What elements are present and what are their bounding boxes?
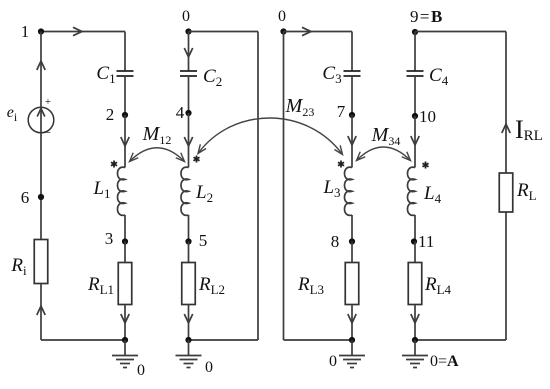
dot-convention star L4 bbox=[422, 162, 428, 169]
capacitor C3 bbox=[344, 71, 361, 76]
label RL4 bbox=[424, 274, 452, 297]
wire RL3 to ground junction bbox=[351, 305, 353, 341]
dot-convention star L1 bbox=[111, 161, 117, 168]
wire right side loop2 bbox=[257, 32, 259, 341]
current arrow down into L1 bbox=[121, 137, 129, 146]
node 8 bbox=[331, 232, 355, 251]
wire node8 to RL3 bbox=[351, 242, 353, 263]
svg-text:0: 0 bbox=[205, 359, 213, 376]
svg-text:6: 6 bbox=[21, 188, 30, 207]
svg-text:3: 3 bbox=[105, 229, 114, 248]
wire C2 to node 4 bbox=[188, 76, 190, 113]
mutual inductance M23 arc bbox=[198, 118, 343, 155]
wire branch2 node0 to C2 bbox=[188, 32, 190, 72]
dot-convention star L3 bbox=[338, 161, 344, 168]
resistor RL1 bbox=[118, 263, 132, 305]
capacitor C4 bbox=[407, 71, 424, 76]
current arrow down into L3 bbox=[348, 136, 356, 145]
wire right side loop4 bbox=[505, 32, 507, 341]
label M23 bbox=[285, 95, 315, 119]
resistor Ri bbox=[34, 240, 48, 284]
wire node4 to L2 bbox=[188, 113, 190, 168]
current arrow on top wire loop3 bbox=[302, 27, 311, 35]
label RL3 bbox=[297, 274, 324, 297]
ground 0 loop1 bbox=[112, 340, 145, 379]
label L3 bbox=[322, 177, 340, 200]
current arrow down to ground2 bbox=[184, 314, 192, 323]
current arrow down to ground3 bbox=[348, 314, 356, 323]
current arrow down to ground1 bbox=[121, 314, 129, 323]
label e_i bbox=[7, 104, 18, 124]
wire node7 to L3 bbox=[351, 115, 353, 168]
voltage source e_i bbox=[28, 96, 54, 139]
node 11 bbox=[411, 232, 434, 251]
label C1 bbox=[96, 63, 115, 86]
wire top loop4 bbox=[415, 31, 506, 33]
wire RL2 to ground junction bbox=[188, 305, 190, 341]
capacitor C2 bbox=[180, 71, 197, 76]
node 0 loop3 bbox=[278, 8, 287, 35]
inductor L3 bbox=[345, 167, 353, 215]
resistor RL2 bbox=[182, 263, 196, 305]
wire L1 to node 3 bbox=[124, 215, 126, 242]
resistor RL3 bbox=[345, 263, 359, 305]
resistor RL load bbox=[499, 173, 513, 212]
current arrow up below Ri bbox=[37, 306, 45, 315]
current arrow down into L4 bbox=[411, 136, 419, 145]
label C3 bbox=[322, 63, 341, 86]
inductor L4 bbox=[408, 167, 416, 215]
wire node11 to RL4 bbox=[414, 242, 416, 263]
svg-text:0: 0 bbox=[137, 362, 145, 379]
svg-text:4: 4 bbox=[176, 103, 185, 122]
current arrow on top wire loop1 bbox=[73, 27, 82, 35]
wire bottom loop2 bbox=[189, 339, 259, 341]
wire top loop2 bbox=[189, 31, 259, 33]
label RL load bbox=[516, 180, 537, 203]
label M12 bbox=[142, 123, 172, 147]
svg-text:0=A: 0=A bbox=[430, 353, 459, 370]
wire node2 to L1 bbox=[124, 115, 126, 168]
wire bottom loop1 bbox=[41, 339, 125, 341]
junction node loop1 ground bbox=[122, 337, 128, 343]
ground 0 loop3 bbox=[329, 340, 365, 370]
wire bottom loop4 bbox=[415, 339, 506, 341]
svg-text:+: + bbox=[45, 96, 51, 108]
label L1 bbox=[92, 178, 110, 201]
inductor L2 bbox=[181, 167, 189, 215]
wire node10 to L4 bbox=[414, 116, 416, 168]
wire top loop1 node1 to C1 branch bbox=[41, 31, 125, 33]
current arrow IRL up bbox=[502, 124, 510, 133]
svg-text:2: 2 bbox=[106, 105, 115, 124]
label M34 bbox=[371, 124, 401, 148]
wire below Ri to bottom bbox=[40, 284, 42, 341]
label C4 bbox=[429, 65, 449, 88]
wire branch1 top to C1 bbox=[124, 32, 126, 72]
wire RL4 to ground junction bbox=[414, 305, 416, 341]
wire C1 to node 2 bbox=[124, 76, 126, 115]
mutual inductance M12 arc bbox=[130, 148, 185, 162]
label IRL bbox=[515, 115, 543, 144]
node 0 loop2 bbox=[182, 8, 192, 35]
current arrow down into L2 bbox=[184, 137, 192, 146]
svg-text:0: 0 bbox=[182, 8, 190, 25]
current arrow down above C2 bbox=[184, 48, 192, 57]
node 9 = B bbox=[410, 7, 442, 35]
inductor L1 bbox=[118, 167, 126, 215]
svg-text:7: 7 bbox=[337, 102, 346, 121]
node 7 bbox=[337, 102, 355, 121]
node 6 bbox=[21, 188, 44, 207]
node 5 bbox=[185, 231, 207, 250]
wire bottom loop3 bbox=[284, 339, 353, 341]
svg-text:–: – bbox=[43, 124, 51, 139]
junction node loop3 ground bbox=[349, 337, 355, 343]
wire L3 to node 8 bbox=[351, 215, 353, 242]
label RL1 bbox=[87, 274, 114, 297]
current arrow up toward node 1 bbox=[37, 61, 45, 70]
wire L4 to node 11 bbox=[414, 215, 416, 242]
wire branch3 to C3 bbox=[351, 32, 353, 72]
node 2 bbox=[106, 105, 128, 124]
junction node loop4 ground bbox=[412, 337, 418, 343]
node 10 bbox=[412, 107, 436, 126]
ground 0 = A bbox=[402, 340, 459, 370]
wire node3 to RL1 bbox=[124, 242, 126, 263]
label C2 bbox=[203, 66, 222, 89]
wire left loop1 down from node1 through source bbox=[40, 32, 42, 240]
svg-text:8: 8 bbox=[331, 232, 340, 251]
wire C4 to node 10 bbox=[414, 76, 416, 116]
svg-text:11: 11 bbox=[418, 232, 434, 251]
svg-text:0: 0 bbox=[329, 353, 337, 370]
wire branch4 to C4 bbox=[414, 32, 416, 72]
wire C3 to node 7 bbox=[351, 76, 353, 115]
node 3 bbox=[105, 229, 128, 248]
wire left side loop3 bbox=[283, 32, 285, 341]
node 1 bbox=[21, 22, 44, 41]
svg-text:9 = B: 9 = B bbox=[410, 7, 442, 26]
ground 0 loop2 bbox=[176, 340, 214, 376]
label Ri bbox=[10, 255, 27, 278]
capacitor C1 bbox=[117, 71, 134, 76]
junction node loop2 ground bbox=[185, 337, 191, 343]
svg-text:1: 1 bbox=[21, 22, 30, 41]
current arrow down to ground4 bbox=[411, 314, 419, 323]
label RL2 bbox=[198, 274, 225, 297]
mutual inductance M34 arc bbox=[357, 147, 411, 161]
svg-text:5: 5 bbox=[199, 231, 208, 250]
svg-text:0: 0 bbox=[278, 8, 286, 25]
resistor RL4 bbox=[408, 263, 422, 305]
wire RL1 to ground junction bbox=[124, 305, 126, 341]
svg-text:10: 10 bbox=[419, 107, 436, 126]
label L4 bbox=[423, 183, 442, 206]
label L2 bbox=[195, 182, 213, 205]
wire node5 to RL2 bbox=[188, 242, 190, 263]
wire L2 to node 5 bbox=[188, 215, 190, 242]
wire top loop3 bbox=[284, 31, 353, 33]
dot-convention star L2 bbox=[193, 156, 199, 163]
node 4 bbox=[176, 103, 192, 122]
